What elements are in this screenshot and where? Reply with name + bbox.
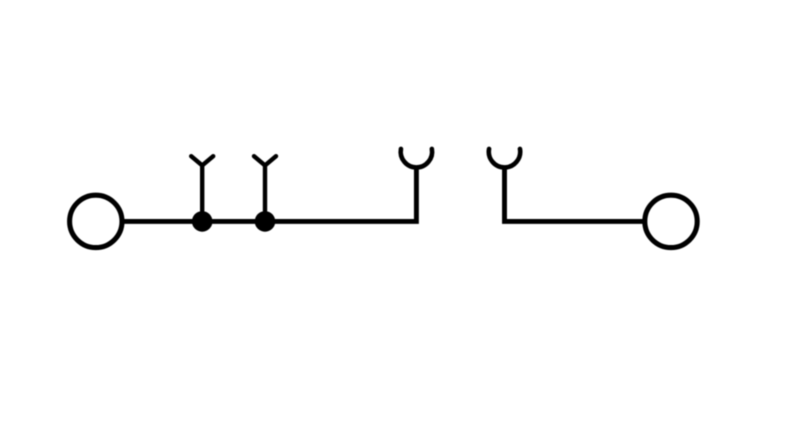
wire W1 (left terminal to disconnect contact, with riser) — [122, 167, 417, 221]
wire W2 (disconnect contact to right terminal, with riser) — [505, 167, 646, 221]
terminal circle T2 (right connection point) — [645, 195, 697, 247]
terminal circle T1 (left connection point) — [70, 195, 122, 247]
tap symbol Y1 (test tap at J1) — [191, 156, 213, 221]
disconnect contact cup K1 (left socket) — [401, 149, 432, 168]
junction J2 — [255, 211, 276, 232]
tap symbol Y2 (test tap at J2) — [254, 156, 276, 221]
junction J1 — [192, 211, 213, 232]
disconnect contact cup K2 (right socket) — [489, 149, 520, 168]
